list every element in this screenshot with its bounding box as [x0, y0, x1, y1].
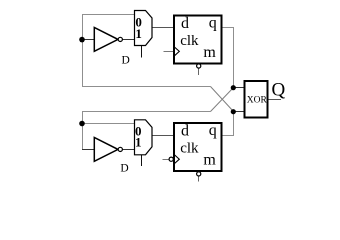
- svg-text:m: m: [203, 152, 216, 169]
- svg-text:d: d: [181, 123, 189, 140]
- svg-text:q: q: [209, 122, 217, 139]
- svg-text:clk: clk: [180, 141, 199, 157]
- svg-text:Q: Q: [272, 80, 286, 101]
- svg-text:m: m: [203, 44, 216, 61]
- svg-text:XOR: XOR: [247, 95, 268, 105]
- svg-text:q: q: [209, 14, 217, 31]
- svg-text:clk: clk: [180, 33, 199, 49]
- svg-text:1: 1: [135, 26, 142, 41]
- svg-text:1: 1: [135, 135, 142, 150]
- svg-text:d: d: [181, 15, 189, 32]
- svg-text:D: D: [122, 55, 130, 67]
- svg-text:D: D: [120, 162, 128, 174]
